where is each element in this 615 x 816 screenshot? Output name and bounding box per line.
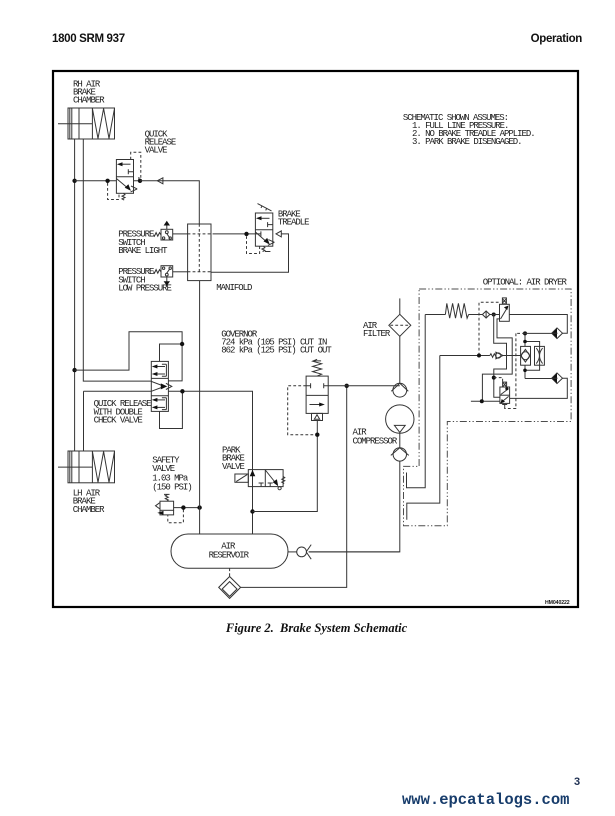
node: park loop dot [250, 509, 254, 513]
manifold [188, 224, 252, 293]
wire: quick release valve to manifold [140, 181, 199, 224]
svg-text:RESERVOIR: RESERVOIR [209, 550, 250, 560]
LH air brake chamber [58, 451, 115, 515]
node: treadle pilot dot [244, 232, 248, 236]
svg-text:MANIFOLD: MANIFOLD [216, 283, 252, 293]
node: governor exhaust line dot [315, 433, 319, 437]
wire: manifold row1 to treadle [213, 233, 255, 235]
node: purge pilot dot [492, 376, 496, 380]
governor [221, 329, 332, 420]
quick release valve [116, 129, 175, 200]
svg-text:862 kPa (125 PSI) CUT OUT: 862 kPa (125 PSI) CUT OUT [221, 345, 332, 355]
node: DQC output dot [180, 389, 184, 393]
node: unloader inlet dot [492, 313, 496, 317]
wire: filter top loop through desiccant [525, 333, 540, 370]
wire: filter bottom to bottom diamond [525, 378, 552, 380]
wire: bottom diamond to purge valve right [510, 378, 568, 398]
wire: left vertical line 2 (RH chamber to DQC middle port) [83, 139, 151, 381]
node: dryer dots [523, 331, 527, 335]
header right [531, 33, 582, 45]
wire: DQC output to park brake line [168, 391, 252, 534]
bottom check diamond [552, 373, 563, 384]
RH air brake chamber [58, 79, 115, 139]
wire: line1 tap to DQC top port [75, 332, 183, 381]
drain valve diamond [219, 568, 241, 598]
pilot dashed: quick release upper [131, 152, 141, 178]
svg-text:BRAKE LIGHT: BRAKE LIGHT [118, 246, 168, 256]
wire: left vertical line 1 (RH chamber to LH chamber) [74, 139, 76, 451]
wire: compressor outlet down and to reservoir check valve [309, 461, 400, 552]
pressure switch brake light [118, 221, 187, 256]
quick release double check valve [94, 361, 172, 425]
header left [52, 33, 125, 45]
svg-text:3. PARK BRAKE DISENGAGED.: 3. PARK BRAKE DISENGAGED. [412, 137, 522, 147]
wire: staircase A (to purge exhaust line) [482, 319, 512, 401]
wire: DQC top port loop [160, 344, 183, 361]
node: pilot tap dot [105, 179, 109, 183]
air reservoir [171, 534, 288, 568]
watermark url [402, 791, 569, 809]
wire: heater feed down to exhaust [407, 315, 426, 488]
svg-text:VALVE: VALVE [152, 464, 175, 474]
optional air dryer boundary [404, 289, 572, 526]
svg-text:FILTER: FILTER [363, 329, 391, 339]
svg-text:VALVE: VALVE [145, 145, 168, 155]
wire: DQC bottom port loop [160, 391, 183, 428]
svg-text:OPTIONAL: AIR DRYER: OPTIONAL: AIR DRYER [483, 277, 568, 287]
desiccant element [535, 346, 545, 365]
unloader valve (air dryer) [500, 298, 510, 321]
svg-text:CHAMBER: CHAMBER [73, 95, 105, 105]
wire: unloader output to top check diamond [509, 315, 567, 334]
air filter [363, 298, 411, 383]
caption [9, 621, 615, 636]
figure border frame [53, 71, 578, 607]
wire: dot to top check diamond [525, 332, 552, 334]
pilot dashed: quick release lower [108, 183, 119, 200]
wire: LH chamber feed from output line [84, 391, 152, 451]
node: junction dots on line 1 [72, 179, 76, 183]
check valve (filter to compressor) [391, 383, 408, 397]
wire: manifold long line down to reservoir [199, 281, 201, 534]
svg-text:CHECK VALVE: CHECK VALVE [94, 416, 143, 426]
pilot dashed: governor [288, 386, 315, 435]
wire: drain line right and up to governor node [241, 386, 347, 588]
page number [574, 776, 580, 788]
node: DQC top node dot [180, 342, 184, 346]
dryer filter element [521, 346, 531, 365]
svg-text:COMPRESSOR: COMPRESSOR [353, 437, 398, 447]
check valve (compressor outlet) [391, 433, 409, 461]
air compressor [353, 405, 414, 447]
svg-text:TREADLE: TREADLE [278, 218, 309, 228]
pilot dashed: dryer internal [511, 333, 525, 408]
node: purge exhaust dot [480, 399, 484, 403]
wire: treadle output down to manifold row2 [211, 234, 289, 272]
top check diamond [552, 328, 563, 339]
wire: park loop to governor exhaust [253, 421, 318, 512]
reservoir outlet check valve [288, 545, 399, 560]
orifice diamond [482, 311, 489, 318]
safety valve [152, 456, 199, 515]
pilot dashed: treadle feedback [247, 236, 260, 253]
assumptions note [403, 113, 535, 147]
node: quick release outlet dot [138, 179, 142, 183]
wire: regeneration line [440, 355, 490, 357]
node: safety line dots [181, 505, 185, 509]
regen orifice symbol [490, 352, 521, 359]
pilot dashed: safety valve [168, 510, 184, 523]
svg-text:VALVE: VALVE [222, 462, 245, 472]
check arrow on treadle output [276, 231, 281, 237]
wire: main line RH chamber to quick release valve [75, 180, 117, 182]
wire: staircase B (to purge valve) [494, 315, 507, 398]
pilot dashed: purge valve top [494, 378, 503, 383]
node: regen pilot dot [477, 354, 481, 358]
heater coil [425, 303, 482, 318]
pressure switch low pressure [118, 266, 187, 294]
pilot dashed: unloader [479, 302, 500, 355]
wire: governor output to compressor line [328, 385, 400, 387]
svg-text:CHAMBER: CHAMBER [73, 505, 105, 515]
park brake valve [222, 445, 285, 489]
node: governor output dot [345, 384, 349, 388]
drawing number HM040222 [545, 600, 570, 606]
svg-text:LOW PRESSURE: LOW PRESSURE [118, 284, 171, 294]
wire: purge exhaust line [471, 400, 500, 402]
purge valve [500, 382, 511, 408]
check arrow (flow marker) on line [157, 178, 163, 184]
brake treadle valve [255, 204, 309, 252]
svg-text:(150 PSI): (150 PSI) [152, 482, 191, 492]
